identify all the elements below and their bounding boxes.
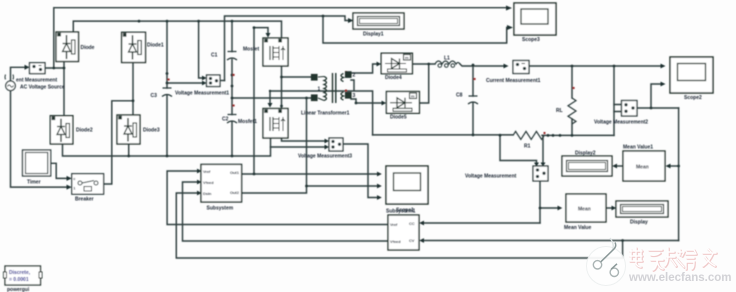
wire VM2 signal vertical [678,108,680,241]
wire C8 branch [472,65,474,135]
wire branch to Scope3 input2 [323,16,508,43]
diode Diode2 [50,116,73,144]
svg-text:Mosfet1: Mosfet1 [238,119,257,125]
voltage measurement VM3 [329,138,343,151]
svg-text:CC: CC [409,221,415,226]
wire primary-bottom midpoint rail [232,97,313,99]
diode Diode [56,32,79,62]
wire VM to Mean Value [540,207,558,209]
capacitor C3 [162,88,172,97]
svg-text:CV: CV [409,238,415,243]
voltage measurement VM [533,166,548,181]
wire VM3 minus feed [271,146,325,148]
wire bridge leg1 node [63,62,65,116]
wire VM2 input drop [613,66,615,135]
watermark chinese text [631,249,717,271]
svg-text:Scope2: Scope2 [684,95,702,101]
svg-text:Subsystem: Subsystem [207,206,234,212]
svg-text:Diode5: Diode5 [390,115,407,121]
red polarity marks [168,71,575,134]
wire RL leads [571,66,573,135]
svg-text:Vfeed: Vfeed [390,239,401,244]
wire bottom output rail right of R1 [542,134,614,136]
wire diode3 bottom lead [128,144,130,156]
wire secondary3 to Diode5 [351,99,382,103]
mean Mean Value1 [623,151,665,181]
capacitor C8 [468,96,478,104]
wire bottom loop to Dsin [176,193,622,258]
voltage measurement VM2 [622,101,638,117]
svg-text:Voltage Measurement: Voltage Measurement [465,174,517,180]
svg-text:Diode4: Diode4 [385,75,402,81]
svg-text:1: 1 [318,87,321,93]
wire Timer to breaker c [51,163,67,178]
svg-text:Vref: Vref [390,222,398,227]
wire AC source to breaker input1 [11,91,67,188]
display Display [616,201,668,217]
svg-text:m: m [405,55,409,60]
wire VM3 output to Scope1 input3 [343,144,377,198]
svg-text:Display2: Display2 [575,151,596,157]
svg-text:L1: L1 [444,56,450,62]
wire mosfet1 source to VM3 plus [282,138,325,141]
inductor L1 [435,61,460,67]
voltage measurement VM1 [207,75,221,87]
wire VM1 plus input [199,21,202,78]
wire breaker output to leg2 [104,101,133,184]
arrowheads [25,6,671,243]
wire L1 to Current Measurement1 [460,64,504,66]
wire drop to bottom loop [622,241,624,259]
wire mosfet1 gate feed [269,91,271,104]
svg-text:Voltage Measurement1: Voltage Measurement1 [175,91,229,97]
svg-text:Breaker: Breaker [75,197,94,203]
wire C3 branch [166,21,168,156]
svg-text:2: 2 [353,73,356,79]
svg-text:Timer: Timer [27,180,41,186]
wire CC feedback line [424,222,540,224]
wire CM output to leg1 [45,67,64,69]
svg-text:Mean: Mean [578,207,591,213]
diode Diode4 [381,53,412,73]
svg-text:3: 3 [353,93,356,99]
svg-text:Voltage Measurement3: Voltage Measurement3 [298,154,352,160]
svg-text:Display: Display [630,220,648,226]
scope Scope2 [670,57,713,93]
wire mosfet source to mosfet1 drain [281,66,283,108]
scope Scope1 [386,166,428,204]
svg-text:Discrete,: Discrete, [9,270,31,276]
wire C1 C2 stack [231,21,233,156]
wire VM across R1 minus tap [542,135,544,162]
wire bottom output rail left of R1 [373,134,513,136]
svg-text:Out1: Out1 [230,170,240,175]
svg-text:R1: R1 [524,144,531,150]
wire VM output down [539,181,541,223]
diode Diode1 [122,32,146,62]
svg-text:Linear Transformer1: Linear Transformer1 [301,111,350,117]
svg-text:C3: C3 [151,93,158,99]
svg-text:Vref: Vref [203,169,211,174]
current measurement CM1 [513,61,529,74]
subsystem Subsystem1 [388,215,419,250]
wire branch to Scope2 input2 [651,84,661,108]
capacitor C2 [227,115,237,124]
svg-text:RL: RL [556,108,563,114]
svg-text:Mean Value1: Mean Value1 [623,145,653,151]
Timer [23,150,51,176]
wire VM1 minus input [167,82,202,84]
wire gate riser from Out1 [254,28,268,174]
wire VM2 output [637,107,679,109]
wire midpoint to primary top [282,76,314,78]
mean Mean Value [566,194,606,222]
wire Mean Value to Display [606,207,612,209]
svg-text:Vfeed: Vfeed [203,180,214,185]
svg-text:Mean: Mean [636,165,649,171]
svg-text:Diode3: Diode3 [143,128,160,134]
svg-text:powergui: powergui [7,287,30,292]
wire Out2 riser [242,98,307,193]
resistor RL [568,98,576,124]
wire Diode4 output to L1 [412,63,435,65]
display Display2 [562,156,612,176]
wire VM1 output riser to Display1 [225,16,349,81]
svg-text:ent Measurement: ent Measurement [16,78,57,84]
svg-text:Scope3: Scope3 [522,37,540,43]
wire AC source to current measurement [11,67,25,81]
svg-text:= 0.0001: = 0.0001 [9,277,29,283]
svg-text:C8: C8 [456,93,463,99]
wire Mean Value1 to Display2 [617,165,623,167]
capacitor C1 [227,52,237,61]
wire current-measurement to Scope3 top line [54,8,506,68]
wire VM2 input stubs [614,105,621,112]
svg-text:Display1: Display1 [363,32,384,38]
svg-text:AC Voltage Source: AC Voltage Source [20,85,65,91]
wire Out1 to Scope1 [242,173,377,175]
svg-text:C1: C1 [211,53,218,59]
linear transformer [312,72,352,103]
svg-text:Current Measurement1: Current Measurement1 [486,78,541,84]
scope Scope3 [514,3,556,35]
wire CM1 output to Scope2 [529,65,661,67]
svg-text:Voltage Measurement2: Voltage Measurement2 [594,120,648,126]
wire bridge leg2 node [132,63,134,116]
Breaker [72,174,104,195]
wire DC- rail [63,139,271,157]
wire DC+ rail [73,21,281,38]
svg-text:Dsin: Dsin [203,191,212,196]
resistor R1 [513,131,544,139]
svg-text:Mosfet: Mosfet [243,47,259,53]
svg-text:Scope1: Scope1 [396,208,414,214]
svg-text:Mean Value: Mean Value [564,225,591,231]
watermark logo circle [587,238,626,286]
svg-text:www.elecfans.com: www.elecfans.com [628,272,731,284]
wire Diode5 output riser [420,64,429,103]
wire VM1 output [220,80,225,82]
wire secondary2 to Diode4 [351,64,377,73]
mosfet Mosfet1 [263,109,288,139]
svg-text:Diode2: Diode2 [76,128,93,134]
wire VM across R1 plus tap [500,135,537,162]
svg-text:C2: C2 [222,117,229,123]
diode Diode5 [386,92,419,114]
svg-text:Diode: Diode [81,45,95,51]
wire Vfeed loop [183,182,389,241]
wire branch into Mean Value1 [671,165,679,167]
svg-text:Diode1: Diode1 [147,43,164,49]
display Display1 [353,13,404,29]
current measurement CM [30,63,46,74]
wire CV feedback line [424,240,679,242]
wire branch to Scope1 input2 [307,185,378,187]
AC Voltage Source [5,75,15,91]
powergui Discrete block [4,266,43,285]
subsystem Subsystem [201,164,242,202]
mosfet Mosfet [263,38,288,66]
svg-text:m: m [411,94,415,99]
wire secondary center-tap return [270,80,373,135]
svg-text:Out2: Out2 [230,190,240,195]
wire Vref loop [167,171,388,225]
diode Diode3 [117,115,140,144]
